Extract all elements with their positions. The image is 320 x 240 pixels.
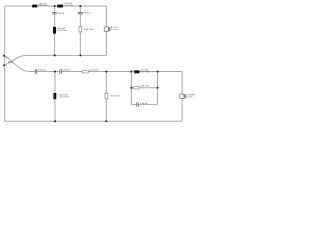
wire amp to woofer return curve xyxy=(5,55,28,65)
amp minus sign xyxy=(6,64,7,66)
node junction dot RLC left at R3 xyxy=(131,87,133,89)
wire branch node B vertical xyxy=(79,6,81,55)
inductor L5 50,0 uH xyxy=(134,69,150,73)
wire amp to tweeter feed curve xyxy=(5,56,30,72)
wire left vertical rail xyxy=(4,6,6,121)
wire R3 branch horizontal xyxy=(131,87,157,89)
wire top horizontal rail xyxy=(5,5,107,7)
node junction dot RLC right at R3 xyxy=(157,87,159,89)
speaker woofer AL 170 xyxy=(104,26,118,32)
svg-text:0,10 Ohm: 0,10 Ohm xyxy=(140,72,150,74)
capacitor C3 0,00 uF xyxy=(60,69,71,74)
amp plus sign xyxy=(6,56,7,57)
capacitor C5 22,0 uF xyxy=(78,12,92,14)
svg-text:0,20 Ohm: 0,20 Ohm xyxy=(57,30,67,32)
wire R2 branch vertical xyxy=(105,72,107,122)
svg-text:20,0 Ohm: 20,0 Ohm xyxy=(110,95,120,97)
svg-text:4,70 µF: 4,70 µF xyxy=(38,70,46,72)
inductor L3 90,0 uH xyxy=(53,27,67,34)
capacitor C1 9,00 uF xyxy=(52,12,65,15)
resistor R1 6,80 Ohm xyxy=(79,27,94,32)
svg-text:9,00 µF: 9,00 µF xyxy=(57,13,65,15)
node junction dot return rail at branch B xyxy=(80,55,82,57)
svg-text:1,50 µF: 1,50 µF xyxy=(140,103,148,105)
wire L4 branch vertical xyxy=(54,72,56,122)
svg-text:Amp: Amp xyxy=(8,60,14,64)
node junction dot feed wire at L4 branch xyxy=(54,71,56,73)
inductor L4 0,33 mH xyxy=(53,93,69,99)
svg-text:8 Ohm: 8 Ohm xyxy=(186,96,193,98)
wire RLC right vertical xyxy=(157,72,159,105)
resistor R2 20,0 Ohm xyxy=(105,93,120,99)
amp terminal plus xyxy=(3,55,5,57)
node C junction dot xyxy=(131,71,133,73)
svg-text:2,50 Ohm: 2,50 Ohm xyxy=(89,69,99,71)
capacitor C2 4,70 uF xyxy=(35,69,46,74)
wire tweeter drop vertical xyxy=(181,72,183,122)
wire woofer return rail xyxy=(28,54,107,56)
resistor R3 5,80 Ohm xyxy=(134,85,150,89)
svg-text:0,40 Ohm: 0,40 Ohm xyxy=(64,5,74,7)
speaker tweeter G 25 FFL xyxy=(180,94,196,99)
wire tweeter feed horizontal xyxy=(30,71,183,73)
svg-text:0,00 µF: 0,00 µF xyxy=(62,70,70,72)
node junction dot feed wire at R2 branch xyxy=(105,71,107,73)
svg-text:5,80 Ohm: 5,80 Ohm xyxy=(140,85,150,87)
node junction dot return rail at branch A xyxy=(54,55,56,57)
capacitor C4 1,50 uF xyxy=(137,102,148,107)
svg-text:22,0 µF: 22,0 µF xyxy=(84,13,92,15)
wire bottom horizontal rail xyxy=(5,120,182,122)
svg-text:0,20 Ohm: 0,20 Ohm xyxy=(38,5,48,7)
svg-text:6,80 Ohm: 6,80 Ohm xyxy=(84,29,94,31)
node B junction dot xyxy=(80,5,82,7)
resistor R4 2,50 Ohm xyxy=(82,69,99,73)
node A junction dot xyxy=(54,5,56,7)
inductor L2 0,47 mH xyxy=(57,3,73,7)
amp terminal minus xyxy=(3,64,5,66)
wire RLC left vertical xyxy=(130,72,132,105)
wire branch node A vertical xyxy=(54,6,56,55)
wire C4 branch horizontal xyxy=(131,103,157,105)
svg-text:8 Ohm: 8 Ohm xyxy=(111,29,118,31)
node junction dot bottom rail at L4 branch xyxy=(54,120,56,122)
svg-text:0,20 Ohm: 0,20 Ohm xyxy=(59,97,69,99)
node junction dot bottom rail at R2 branch xyxy=(105,120,107,122)
node D junction dot xyxy=(157,71,159,73)
wire woofer drop vertical xyxy=(105,6,107,55)
inductor L1 0,82 mH xyxy=(32,3,48,7)
